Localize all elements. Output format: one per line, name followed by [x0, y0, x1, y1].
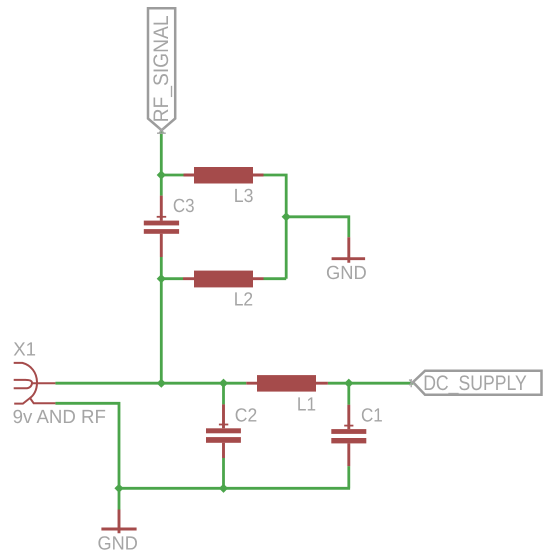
svg-text:C1: C1: [361, 406, 383, 427]
svg-text:GND: GND: [98, 533, 138, 554]
svg-text:L2: L2: [234, 290, 253, 311]
svg-text:L3: L3: [234, 186, 254, 207]
svg-text:C3: C3: [173, 196, 195, 217]
svg-text:X1: X1: [13, 340, 36, 361]
svg-text:RF_SIGNAL: RF_SIGNAL: [150, 15, 173, 122]
svg-text:GND: GND: [326, 263, 367, 284]
svg-text:C2: C2: [235, 405, 257, 426]
svg-text:9v AND RF: 9v AND RF: [13, 407, 106, 428]
svg-text:L1: L1: [297, 395, 316, 416]
svg-text:DC_SUPPLY: DC_SUPPLY: [423, 372, 527, 395]
